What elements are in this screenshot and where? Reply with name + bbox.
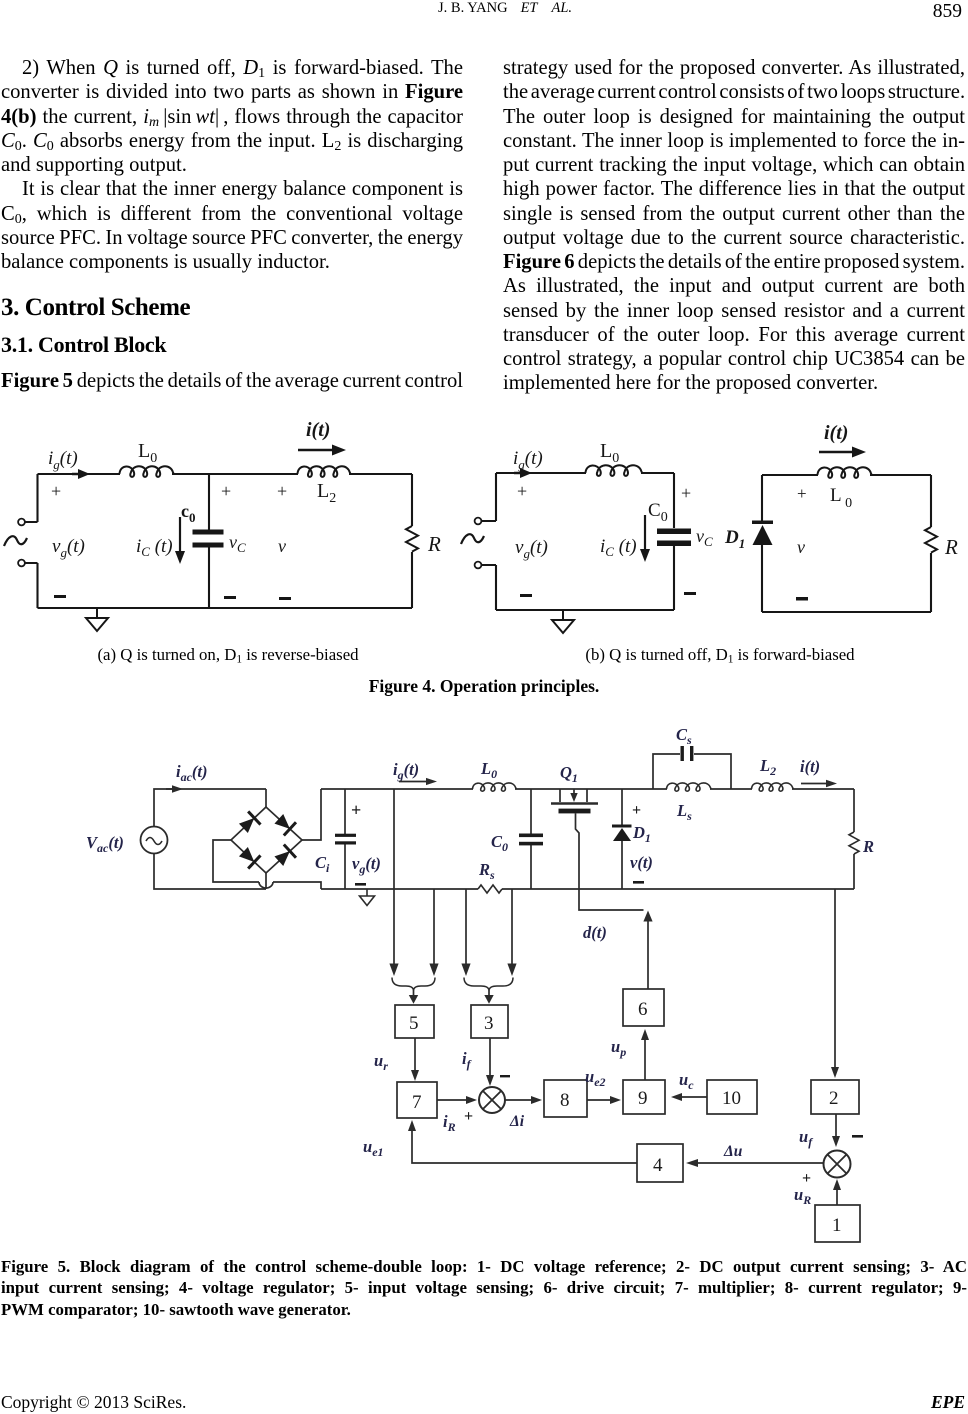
resistor R zigzag [925, 527, 937, 553]
label minus v(t) [633, 881, 644, 884]
inductor L0 [818, 467, 872, 478]
svg-text:+: + [797, 484, 807, 503]
wire right edge [411, 474, 413, 608]
svg-text:v(t): v(t) [630, 853, 653, 872]
inductor L0 [586, 465, 643, 476]
wire terminals to box [25, 522, 38, 563]
svg-text:+: + [51, 481, 61, 501]
transistor Q1 source wire [576, 813, 580, 889]
svg-text:9: 9 [638, 1088, 648, 1109]
bottom rail [321, 888, 854, 890]
svg-text:Cs: Cs [676, 725, 692, 747]
capacitor C0 plates [519, 834, 543, 838]
transistor Q1 gate arrow [573, 789, 575, 794]
label minus left [54, 595, 66, 598]
sense line Rs right [511, 889, 513, 966]
diode D1 triangle [753, 525, 773, 545]
svg-text:L0: L0 [480, 759, 497, 781]
merge brace 3 [464, 978, 513, 990]
wire top [762, 474, 931, 476]
bridge diamond [231, 807, 302, 873]
svg-text:iC (t): iC (t) [600, 536, 637, 559]
wire right edge [673, 473, 675, 610]
resistor R zigzag [849, 832, 859, 854]
bridge stub top [265, 789, 267, 807]
svg-text:v: v [278, 536, 286, 556]
wire source top [154, 789, 266, 827]
svg-text:if: if [462, 1049, 472, 1071]
ac source ~ [461, 534, 484, 544]
d(t) gate hook [579, 889, 644, 910]
svg-text:C0: C0 [491, 832, 508, 854]
ac source Vac circle [141, 827, 168, 854]
ground [552, 610, 574, 633]
block 7 [397, 1082, 437, 1118]
left column text [1, 56, 463, 274]
ac source ~ [4, 536, 27, 546]
svg-text:D1: D1 [724, 527, 745, 551]
load R leg [853, 789, 855, 889]
inductor L0 [473, 783, 517, 791]
svg-text:iC (t): iC (t) [136, 536, 173, 559]
wire left edge [495, 473, 497, 610]
svg-text:+: + [632, 802, 641, 819]
merge brace 5 [392, 978, 435, 990]
transistor Q1 plate bar [559, 809, 591, 814]
block 8 [544, 1080, 587, 1117]
svg-text:iac(t): iac(t) [176, 762, 208, 784]
svg-text:+: + [464, 1108, 473, 1125]
svg-text:+: + [681, 483, 691, 503]
svg-text:ig(t): ig(t) [393, 760, 419, 782]
svg-text:D1: D1 [632, 823, 651, 845]
label minus vg [355, 883, 366, 886]
svg-text:10: 10 [722, 1088, 741, 1109]
svg-text:i(t): i(t) [824, 422, 848, 444]
capacitor Ci wire [344, 789, 346, 889]
block 10 [707, 1080, 757, 1114]
svg-text:uf: uf [799, 1127, 813, 1149]
wire top left [496, 472, 586, 474]
svg-text:3: 3 [484, 1013, 494, 1034]
footer [1, 1392, 186, 1413]
sense line Rs left [465, 889, 467, 966]
bridge diode bottom-right [273, 844, 296, 867]
summer circle 2 [824, 1151, 851, 1178]
dc minus wire from left corner [213, 840, 259, 882]
ground [86, 608, 108, 631]
svg-text:Vac(t): Vac(t) [86, 833, 124, 855]
wire summer 2 to 4 [697, 1162, 824, 1164]
arrow i(t) [298, 449, 334, 451]
merge arrow 5 [413, 990, 415, 996]
transistor Q1 channel bar [551, 802, 598, 805]
header [438, 0, 572, 17]
bridge diode bottom-left [237, 845, 260, 868]
terminal lower [475, 562, 482, 569]
svg-text:+: + [277, 481, 287, 501]
svg-text:R: R [862, 837, 874, 856]
svg-text:R: R [427, 532, 441, 556]
inductor L2 [298, 466, 351, 477]
inductor Ls [667, 783, 712, 791]
svg-text:Ls: Ls [676, 801, 692, 823]
diode D1 triangle [613, 828, 631, 841]
inductor L2 [752, 783, 794, 791]
svg-text:uR: uR [794, 1185, 811, 1207]
svg-text:ig(t): ig(t) [48, 448, 78, 472]
dc plus wire from right corner [302, 789, 321, 840]
diode D1 wire [621, 789, 623, 889]
label minus v [279, 597, 291, 600]
block 5 [395, 1005, 434, 1038]
wire top mid [172, 473, 298, 475]
label minus uf [852, 1135, 863, 1138]
wire terminals to box [481, 521, 496, 565]
FIGURE 5 SVG placeholder [0, 710, 968, 1255]
wire summer to 8 [505, 1099, 532, 1101]
wire bottom [762, 611, 931, 613]
capacitor C0 plates [657, 529, 691, 535]
label minus if [500, 1075, 510, 1077]
wire bottom [496, 609, 674, 611]
resistor R zigzag [406, 526, 418, 552]
wire 7 to summer [437, 1099, 467, 1101]
current arrow iC [644, 515, 646, 551]
svg-text:uc: uc [679, 1070, 694, 1092]
svg-text:vC: vC [229, 532, 246, 555]
d(t) wire down to block 6 [647, 920, 649, 989]
wire 2 to summer 2 [835, 1114, 837, 1137]
bridge stub bottom [265, 873, 267, 889]
wire top right [349, 473, 412, 475]
svg-text:R: R [944, 535, 958, 559]
resistor Rs zigzag [478, 885, 502, 893]
label minus mid [224, 596, 236, 599]
svg-text:1: 1 [832, 1215, 842, 1236]
svg-text:4: 4 [653, 1155, 663, 1176]
FIGURE 4 SVG placeholder [0, 415, 968, 645]
arrow iac [166, 788, 172, 790]
sense line vg top rail [393, 789, 395, 966]
wire 5 to 7 [414, 1038, 416, 1071]
svg-text:7: 7 [412, 1092, 422, 1113]
svg-text:up: up [611, 1037, 626, 1059]
wire source bottom [154, 854, 266, 890]
label minus right [684, 592, 696, 595]
svg-text:+: + [221, 481, 231, 501]
svg-text:vg(t): vg(t) [515, 537, 548, 561]
svg-text:L 0: L 0 [830, 485, 852, 511]
svg-text:i(t): i(t) [800, 757, 820, 776]
svg-text:+: + [802, 1170, 811, 1187]
svg-text:ue2: ue2 [585, 1067, 606, 1089]
bridge diode top-left [237, 811, 260, 834]
capacitor C0 wire [530, 789, 532, 889]
current arrow ig [514, 472, 522, 475]
wire right edge [930, 475, 932, 612]
svg-text:ig(t): ig(t) [513, 448, 543, 472]
snubber Cs left leg [653, 754, 680, 789]
svg-text:vg(t): vg(t) [352, 854, 381, 876]
label minus [796, 597, 808, 601]
transistor Q1 drain stubs [560, 789, 587, 802]
node mid vertical wire [208, 474, 210, 608]
svg-text:C0: C0 [648, 500, 668, 525]
terminal upper [18, 519, 25, 526]
merge arrow 3 [488, 990, 490, 996]
ground [360, 889, 375, 906]
wire left edge [761, 475, 763, 612]
ac source tilde [146, 838, 162, 845]
terminal upper [475, 518, 482, 525]
summer circle 1 [479, 1087, 505, 1113]
d(t) arrowhead [643, 911, 652, 922]
svg-text:L0: L0 [600, 440, 619, 466]
block 6 [623, 989, 664, 1026]
block 3 [471, 1005, 508, 1038]
capacitor Cs plates [681, 746, 684, 761]
capacitor Ci plates [335, 834, 356, 837]
figure 4 sub-captions [28, 645, 428, 665]
svg-text:vg(t): vg(t) [52, 536, 85, 560]
svg-text:2: 2 [829, 1088, 839, 1109]
svg-text:vC: vC [696, 526, 713, 549]
top rail [321, 788, 854, 790]
wire 9 to 6 [644, 1039, 646, 1080]
svg-text:c0: c0 [181, 501, 196, 525]
wire hop [259, 882, 273, 888]
wire 3 to summer [489, 1038, 491, 1076]
wire 10 to 9 [681, 1096, 707, 1098]
snubber Cs right leg [694, 754, 731, 789]
capacitor C0 plates [193, 530, 224, 535]
svg-text:Δi: Δi [509, 1113, 525, 1130]
figure 5 caption [1, 1256, 967, 1320]
wire bottom [38, 607, 413, 609]
svg-text:ue1: ue1 [363, 1137, 384, 1159]
svg-text:v: v [797, 537, 805, 557]
current arrow ig [72, 473, 80, 476]
svg-text:Rs: Rs [478, 860, 495, 882]
svg-text:iR: iR [443, 1112, 456, 1134]
svg-text:5: 5 [409, 1013, 419, 1034]
arrow ig [399, 781, 426, 783]
diode D1 bar [752, 521, 773, 525]
diode D1 bar [612, 825, 632, 828]
svg-text:+: + [517, 481, 527, 501]
wire top right [641, 472, 674, 474]
wire 8 to 9 [587, 1099, 611, 1101]
block 1 [815, 1205, 860, 1242]
svg-text:d(t): d(t) [583, 923, 607, 942]
right column text [503, 56, 965, 396]
svg-text:L0: L0 [138, 440, 157, 466]
block 2 [811, 1080, 859, 1114]
svg-text:Q1: Q1 [560, 763, 578, 785]
inductor L0 [120, 466, 174, 477]
wire 4 to 7 feedback [412, 1130, 637, 1163]
figure 4 caption [0, 676, 968, 697]
wire left edge [36, 474, 38, 608]
svg-text:8: 8 [560, 1090, 570, 1111]
sense line bottom rail [433, 889, 435, 966]
current arrow iC [179, 517, 181, 553]
sense line output current [834, 889, 836, 1068]
block 4 [637, 1144, 683, 1182]
svg-text:Δu: Δu [723, 1143, 743, 1160]
wire 1 to summer 2 [836, 1189, 838, 1205]
svg-text:+: + [351, 800, 361, 820]
dc minus wire to bottom rail [273, 882, 321, 889]
svg-text:6: 6 [638, 999, 648, 1020]
arrow i(t) [801, 783, 826, 785]
svg-text:Ci: Ci [315, 853, 330, 875]
bridge diode top-right [273, 812, 296, 835]
label minus left [520, 594, 532, 597]
wire top left [38, 473, 121, 475]
svg-text:i(t): i(t) [306, 419, 330, 441]
svg-text:L2: L2 [317, 480, 336, 506]
svg-text:ur: ur [374, 1051, 388, 1073]
svg-text:L2: L2 [759, 756, 776, 778]
terminal lower [18, 560, 25, 567]
arrow i(t) [819, 451, 854, 453]
block 9 [623, 1080, 665, 1114]
